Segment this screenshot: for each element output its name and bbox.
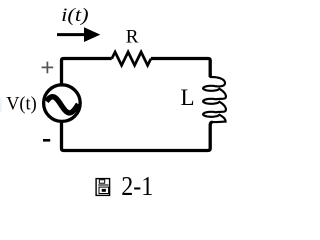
svg-text:V(t): V(t) bbox=[6, 94, 37, 115]
polarity minus sign bbox=[43, 139, 50, 142]
wire bottom segment (corner to source bottom) bbox=[62, 122, 151, 151]
inductor L coil bbox=[203, 77, 226, 122]
resistor R zigzag bbox=[112, 52, 151, 65]
svg-text:R: R bbox=[126, 26, 139, 47]
wire inductor bottom to bottom-right corner bbox=[150, 122, 213, 150]
scan artifact left edge bbox=[0, 98, 2, 112]
svg-text:2-1: 2-1 bbox=[121, 171, 153, 201]
wire top-left segment (source top to resistor) bbox=[62, 59, 112, 85]
polarity plus sign bbox=[42, 62, 54, 74]
wire top-right segment (resistor to inductor top) bbox=[151, 59, 210, 78]
voltage source sine wave bbox=[47, 97, 79, 113]
current arrow bbox=[57, 33, 88, 36]
svg-text:i(t): i(t) bbox=[61, 6, 88, 26]
caption character 圖 (drawn) bbox=[96, 179, 110, 196]
voltage source V(t) circle bbox=[44, 85, 81, 122]
svg-text:L: L bbox=[181, 85, 195, 110]
